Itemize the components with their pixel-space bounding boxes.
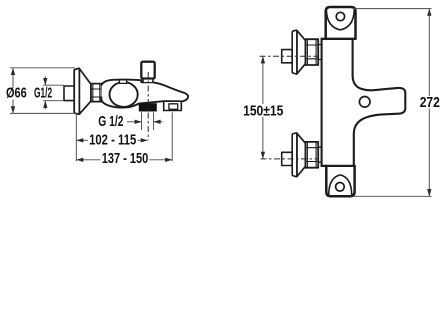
svg-text:G1/2: G1/2 <box>34 86 52 102</box>
svg-text:137 - 150: 137 - 150 <box>102 151 149 167</box>
svg-text:G 1/2: G 1/2 <box>98 114 123 130</box>
svg-text:102 - 115: 102 - 115 <box>89 132 136 148</box>
svg-text:Ø66: Ø66 <box>6 86 27 102</box>
svg-text:150±15: 150±15 <box>243 103 283 119</box>
svg-text:272: 272 <box>420 95 440 111</box>
